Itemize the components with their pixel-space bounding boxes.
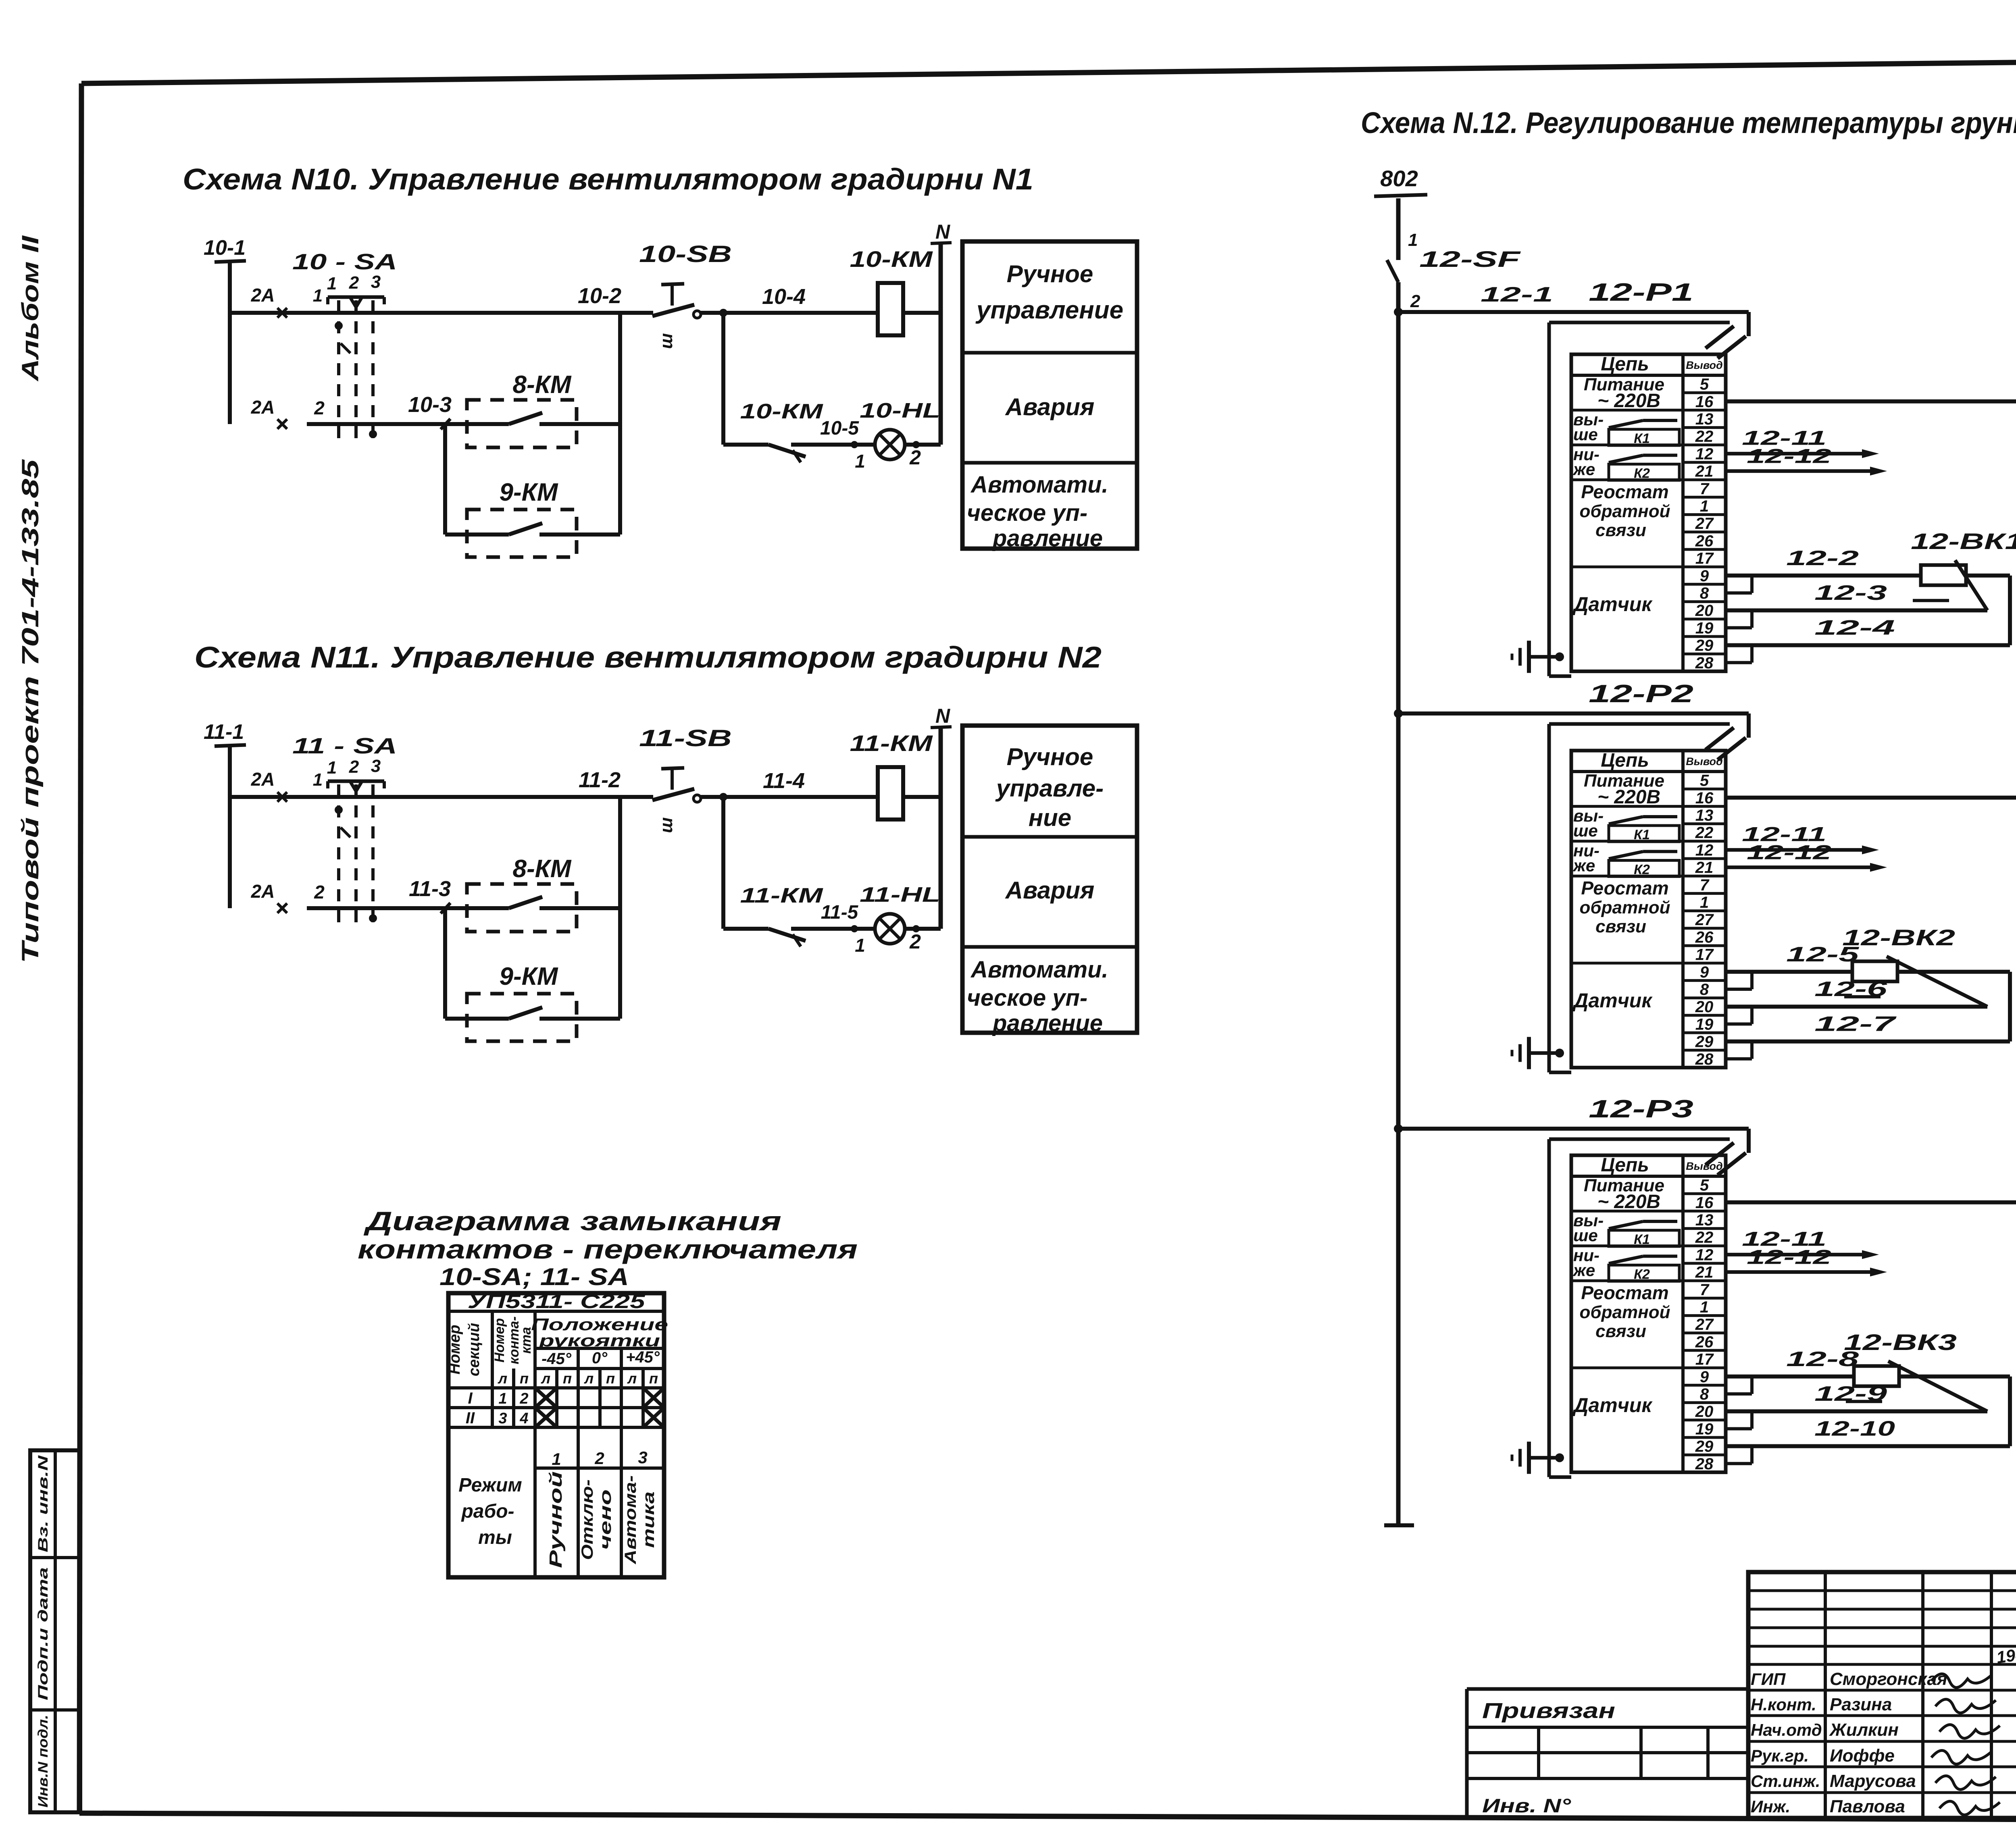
- svg-text:Датчик: Датчик: [1572, 593, 1653, 616]
- sensor pair bracket rows 29-28: [1726, 645, 1752, 663]
- wire 12-12 arrow: [1726, 841, 1887, 872]
- svg-text:ГИП: ГИП: [1751, 1670, 1786, 1689]
- svg-text:контактов - переключателя: контактов - переключателя: [358, 1234, 858, 1264]
- svg-text:12-ВК3: 12-ВК3: [1844, 1329, 1957, 1355]
- strip label выше with contact К1: [1573, 410, 1679, 446]
- label 12-10: [1814, 1417, 1895, 1441]
- svg-text:1: 1: [313, 770, 323, 790]
- svg-text:2А: 2А: [251, 769, 275, 790]
- svg-text:12: 12: [1695, 445, 1714, 463]
- svg-text:20: 20: [1695, 998, 1714, 1016]
- switch 11-SA junction dot pole3: [369, 914, 377, 922]
- svg-text:~ 220В: ~ 220В: [1597, 1191, 1660, 1213]
- svg-text:л: л: [627, 1370, 637, 1387]
- svg-text:10-КМ: 10-КМ: [740, 400, 824, 423]
- svg-text:Вывод: Вывод: [1686, 755, 1722, 768]
- label 2A top: [251, 769, 275, 790]
- sensor pair bracket rows 9-8: [1726, 1377, 1752, 1394]
- N bus: [931, 705, 952, 929]
- wire 12-11 arrow: [1726, 426, 1879, 458]
- svg-text:10-3: 10-3: [408, 393, 452, 417]
- wire rung 10-2 segment: [230, 311, 653, 315]
- contact 9-KM dashed box: [467, 510, 577, 557]
- lamp 11-HL: [860, 883, 940, 944]
- svg-text:ние: ние: [1029, 804, 1071, 831]
- svg-text:17: 17: [1695, 1351, 1714, 1369]
- svg-text:12-1: 12-1: [1481, 283, 1553, 306]
- wire self-hold vertical: [721, 313, 725, 445]
- svg-text:22: 22: [1695, 1229, 1714, 1246]
- svg-text:3: 3: [498, 1410, 507, 1427]
- svg-text:12-Р3: 12-Р3: [1589, 1095, 1693, 1123]
- svg-text:8: 8: [1700, 981, 1709, 998]
- svg-text:9: 9: [1700, 1368, 1709, 1386]
- table режим работы cell: [458, 1475, 522, 1548]
- wire rung 11-2 segment: [230, 795, 653, 799]
- svg-text:26: 26: [1695, 1333, 1714, 1351]
- svg-text:10-5: 10-5: [820, 418, 859, 439]
- switch 11-SA poles dashed: [339, 784, 373, 927]
- pushbutton 10-SB: [652, 284, 701, 349]
- mode box texts: [967, 743, 1108, 1036]
- svg-text:7: 7: [1700, 480, 1710, 498]
- switch 11-SA junction dot pole1: [335, 806, 350, 837]
- sensor pair bracket rows 20-19: [1726, 1411, 1752, 1429]
- svg-text:2А: 2А: [251, 397, 275, 418]
- wire start mark bottom: [277, 903, 287, 913]
- label 2A bottom: [251, 397, 275, 418]
- label 2 lower rung: [314, 882, 325, 903]
- label 12-9: [1814, 1382, 1887, 1406]
- rotated label отключено: [579, 1479, 614, 1560]
- wire branch right vertical: [618, 313, 622, 535]
- привязан block: [1467, 1689, 1748, 1818]
- svg-text:11 - SА: 11 - SА: [292, 733, 397, 758]
- svg-text:управле-: управле-: [995, 775, 1104, 802]
- svg-text:2А: 2А: [251, 881, 275, 902]
- terminal strip 12-Р3: [1571, 1155, 1726, 1472]
- svg-text:п: п: [649, 1370, 658, 1387]
- label 10-5: [820, 418, 859, 439]
- sensor pair bracket rows 20-19: [1726, 1007, 1752, 1024]
- svg-text:Типовой проект 701-4-133.85: Типовой проект 701-4-133.85: [17, 459, 44, 963]
- svg-text:17: 17: [1695, 946, 1714, 964]
- svg-text:26: 26: [1695, 532, 1714, 550]
- rotated header номер контакта: [492, 1317, 534, 1364]
- terminal numbers: [1695, 376, 1714, 672]
- signature row ГИП Сморгонская: [1751, 1669, 1992, 1689]
- svg-text:28: 28: [1695, 1050, 1714, 1068]
- junction tick lower rung: [441, 903, 450, 913]
- svg-text:Схема N11. Управление вентилят: Схема N11. Управление вентилятором гради…: [194, 641, 1102, 674]
- wire 10-4 segment: [700, 311, 878, 315]
- table column lines: [492, 1311, 643, 1577]
- svg-text:же: же: [1572, 856, 1595, 875]
- lamp pin 1: [855, 451, 865, 472]
- svg-text:11-КМ: 11-КМ: [740, 884, 824, 907]
- svg-text:2: 2: [1410, 291, 1420, 311]
- title block year 1984: [1995, 1643, 2016, 1667]
- svg-text:10-SВ: 10-SВ: [639, 241, 732, 267]
- svg-text:N: N: [935, 705, 950, 727]
- svg-text:Ручное: Ручное: [1007, 743, 1093, 770]
- strip label питание 220В: [1584, 1176, 1664, 1213]
- svg-text:-45°: -45°: [541, 1350, 572, 1368]
- svg-text:кта: кта: [519, 1327, 534, 1354]
- diagram heading line 3: [439, 1263, 629, 1290]
- svg-text:секций: секций: [466, 1323, 483, 1377]
- strip label питание 220В: [1584, 771, 1664, 808]
- margin text: album: [17, 235, 44, 382]
- contact 8-KM label: [513, 855, 572, 883]
- svg-text:12-6: 12-6: [1814, 978, 1888, 1001]
- svg-text:Н.конт.: Н.конт.: [1751, 1695, 1816, 1714]
- svg-text:26: 26: [1695, 928, 1714, 946]
- svg-text:2: 2: [314, 397, 325, 418]
- switch 11-SA label: [292, 733, 397, 758]
- wire lamp to N: [905, 443, 941, 447]
- table header УП5311-С225: [448, 1291, 664, 1312]
- lamp pin 1: [855, 935, 865, 956]
- svg-text:ческое уп-: ческое уп-: [967, 500, 1087, 526]
- label 12-7: [1814, 1013, 1897, 1036]
- svg-text:Цепь: Цепь: [1601, 750, 1649, 771]
- svg-text:16: 16: [1695, 789, 1714, 807]
- label 12-3: [1814, 581, 1887, 605]
- wire feed to relay 12-Р3: [1398, 1129, 1749, 1153]
- lamp 10-HL: [860, 399, 940, 460]
- junction self-hold: [719, 309, 727, 317]
- terminal strip 12-Р2: [1571, 751, 1726, 1067]
- svg-text:802: 802: [1380, 166, 1418, 191]
- wire 220V return row16 to N bus: [1726, 793, 2016, 802]
- table positions row 1 2 3: [535, 1448, 664, 1468]
- label 11-4: [763, 769, 805, 793]
- svg-text:К2: К2: [1634, 862, 1650, 877]
- svg-text:27: 27: [1695, 515, 1714, 532]
- junction dot before lamp: [851, 925, 858, 932]
- pushbutton 11-SB: [652, 768, 701, 833]
- signature row Н.конт. Разина: [1751, 1695, 1996, 1714]
- contact 8-KM blade: [467, 897, 620, 908]
- thermal sensor 12-ВК3: [1844, 1329, 1987, 1411]
- svg-text:1: 1: [1408, 230, 1418, 250]
- mode box: [962, 241, 1137, 549]
- svg-text:Разина: Разина: [1830, 1695, 1892, 1714]
- svg-text:1: 1: [855, 451, 865, 472]
- contact 9-KM label: [500, 963, 558, 990]
- lamp pin 2: [909, 446, 921, 469]
- margin stamp label Podp.i data: [35, 1567, 51, 1700]
- terminal strip header texts: [1601, 1154, 1722, 1176]
- svg-text:8-КМ: 8-КМ: [513, 371, 572, 399]
- thermal sensor 12-ВК1: [1911, 528, 2016, 610]
- svg-text:л: л: [584, 1370, 594, 1387]
- label 12-6: [1814, 978, 1888, 1001]
- svg-text:II: II: [466, 1409, 475, 1427]
- svg-text:1: 1: [327, 274, 337, 293]
- wire 12-12 arrow: [1726, 1246, 1887, 1277]
- svg-text:Инж.: Инж.: [1751, 1797, 1790, 1816]
- relay 12-Р1 label: [1589, 279, 1693, 306]
- contact 8-KM label: [513, 371, 572, 399]
- svg-text:Ст.инж.: Ст.инж.: [1751, 1772, 1820, 1791]
- ground symbol 12-Р2: [1512, 1037, 1564, 1069]
- table bottom section separators: [578, 1427, 621, 1577]
- svg-text:12-9: 12-9: [1814, 1382, 1887, 1406]
- svg-text:21: 21: [1695, 463, 1714, 480]
- svg-text:Вз. инв.N: Вз. инв.N: [35, 1455, 51, 1552]
- contact 8-KM dashed box: [467, 400, 577, 447]
- svg-text:2: 2: [909, 930, 921, 953]
- strip label датчик: [1572, 593, 1653, 616]
- rotated label ручной: [546, 1471, 566, 1568]
- svg-text:1: 1: [1700, 894, 1709, 911]
- svg-text:16: 16: [1695, 393, 1714, 411]
- svg-text:13: 13: [1695, 410, 1714, 428]
- wire 12-2: [1726, 547, 1921, 576]
- svg-text:8-КМ: 8-КМ: [513, 855, 572, 883]
- label 10-4: [762, 285, 806, 309]
- svg-text:Подп.и дата: Подп.и дата: [35, 1567, 51, 1700]
- svg-text:12-12: 12-12: [1747, 1246, 1831, 1269]
- coil 10-KM: [850, 246, 933, 335]
- wire start mark top: [277, 792, 287, 802]
- left bus bottom tick: [1384, 1523, 1414, 1527]
- contact 9-KM label: [500, 478, 558, 506]
- sensor pair bracket rows 9-8: [1726, 972, 1752, 989]
- svg-text:ш: ш: [656, 817, 676, 833]
- svg-text:3: 3: [638, 1448, 647, 1467]
- terminal numbers: [1695, 772, 1714, 1068]
- svg-text:11-1: 11-1: [204, 720, 244, 744]
- junction dot feed 1: [1394, 308, 1403, 316]
- junction self-hold: [719, 793, 727, 801]
- svg-text:21: 21: [1695, 859, 1714, 877]
- contact 11-KM NC blade: [723, 929, 876, 946]
- label 11-2: [579, 768, 621, 792]
- wire branch left vertical: [443, 908, 447, 1019]
- relay 12-Р1 outer box: [1549, 322, 1730, 676]
- svg-text:ш: ш: [656, 333, 676, 349]
- strip label реостат обратной связи: [1580, 878, 1670, 936]
- svg-text:1: 1: [552, 1450, 561, 1468]
- svg-text:12-Р1: 12-Р1: [1589, 279, 1693, 306]
- schema 10 title: [183, 162, 1033, 196]
- relay 12-Р3 outer box: [1549, 1139, 1730, 1477]
- cross marks row II: [535, 1408, 664, 1427]
- switch 10-SA label: [292, 249, 397, 274]
- svg-text:обратной: обратной: [1580, 1302, 1670, 1322]
- svg-text:п: п: [606, 1370, 615, 1387]
- svg-text:12-Р2: 12-Р2: [1589, 680, 1693, 708]
- wire start mark bottom: [277, 419, 287, 429]
- svg-text:Инв. N°: Инв. N°: [1482, 1795, 1571, 1817]
- svg-text:22: 22: [1695, 428, 1714, 445]
- svg-text:Рук.гр.: Рук.гр.: [1751, 1746, 1809, 1765]
- margin stamp boxes: [30, 1450, 80, 1812]
- svg-text:19: 19: [1695, 619, 1714, 637]
- switch 10-SA pole numbers 1 2 3: [327, 272, 381, 293]
- strip label питание 220В: [1584, 375, 1664, 412]
- switch 10-SA crossbar: [328, 297, 384, 313]
- coil 11-KM: [850, 730, 933, 820]
- svg-text:12-4: 12-4: [1814, 616, 1895, 640]
- svg-text:Инв.N подл.: Инв.N подл.: [35, 1715, 51, 1807]
- contact 10-KM NC blade: [723, 445, 876, 462]
- svg-text:Жилкин: Жилкин: [1829, 1720, 1899, 1740]
- sensor loop wires: [1726, 1377, 2010, 1446]
- cross marks row I: [535, 1388, 664, 1408]
- svg-text:3: 3: [371, 756, 381, 776]
- svg-text:л: л: [541, 1370, 550, 1387]
- svg-text:11-НL: 11-НL: [860, 883, 940, 907]
- svg-text:Авария: Авария: [1005, 877, 1095, 904]
- switch 11-SA pole numbers 1 2 3: [327, 756, 381, 778]
- label 1 left of SA: [313, 286, 323, 306]
- svg-text:10-НL: 10-НL: [860, 399, 940, 422]
- lamp pin 2: [909, 930, 921, 953]
- svg-text:Датчик: Датчик: [1572, 1394, 1653, 1416]
- wire 12-1 label: [1481, 283, 1553, 306]
- terminal strip header texts: [1601, 354, 1722, 375]
- svg-text:0°: 0°: [592, 1349, 608, 1367]
- svg-text:Схема N10. Управление вентилят: Схема N10. Управление вентилятором гради…: [183, 162, 1033, 196]
- svg-text:12-3: 12-3: [1814, 581, 1887, 605]
- wire lamp to N: [905, 927, 941, 931]
- svg-text:10-КМ: 10-КМ: [850, 246, 933, 272]
- svg-text:К2: К2: [1634, 466, 1650, 481]
- svg-text:11-4: 11-4: [763, 769, 805, 793]
- supply node 802: [1374, 166, 1427, 196]
- svg-text:УП5311- С225: УП5311- С225: [468, 1291, 646, 1312]
- svg-text:же: же: [1572, 1261, 1595, 1280]
- svg-text:12-12: 12-12: [1747, 445, 1831, 468]
- svg-text:10-4: 10-4: [762, 285, 806, 309]
- svg-text:К2: К2: [1634, 1267, 1650, 1282]
- svg-text:тика: тика: [640, 1491, 658, 1548]
- svg-text:29: 29: [1695, 637, 1714, 655]
- svg-text:1: 1: [1700, 1298, 1709, 1316]
- svg-text:12-10: 12-10: [1814, 1417, 1895, 1441]
- switch 10-SA junction dot pole3: [369, 430, 377, 438]
- signature row Ст.инж. Марусова: [1751, 1771, 1996, 1791]
- thermal sensor 12-ВК2: [1842, 925, 1987, 1007]
- svg-text:Схема N.12. Регулирование те: Схема N.12. Регулирование температуры гр…: [1361, 106, 2016, 139]
- svg-text:управление: управление: [975, 296, 1123, 324]
- ground symbol 12-Р1: [1512, 641, 1564, 673]
- svg-text:Вывод: Вывод: [1686, 1160, 1722, 1172]
- svg-text:12-ВК1: 12-ВК1: [1911, 528, 2016, 554]
- label 2 lower rung: [314, 397, 325, 418]
- sensor pair bracket rows 20-19: [1726, 610, 1752, 628]
- svg-text:2: 2: [349, 757, 359, 777]
- margin stamp label Vz.inv.N: [35, 1455, 51, 1552]
- svg-text:16: 16: [1695, 1194, 1714, 1212]
- svg-text:+45°: +45°: [626, 1348, 660, 1366]
- svg-text:2: 2: [349, 273, 359, 293]
- svg-text:ше: ше: [1573, 1226, 1598, 1245]
- svg-text:I: I: [468, 1389, 473, 1407]
- svg-text:1: 1: [313, 286, 323, 306]
- wire lower rung 10-3: [307, 393, 467, 424]
- wire 12-11 arrow: [1726, 1227, 1879, 1259]
- contact 8-KM dashed box: [467, 884, 577, 932]
- svg-text:12: 12: [1695, 841, 1714, 859]
- table УП5311-С225 outer box: [448, 1293, 664, 1577]
- svg-text:п: п: [563, 1370, 572, 1387]
- switch 11-SA crossbar: [328, 781, 384, 797]
- svg-text:Автома-: Автома-: [622, 1475, 639, 1564]
- svg-text:12-12: 12-12: [1747, 841, 1831, 864]
- svg-text:5: 5: [1700, 772, 1709, 790]
- label 2A bottom: [251, 881, 275, 902]
- rotated header номер секций: [446, 1323, 483, 1377]
- wire 12-8: [1726, 1348, 1859, 1377]
- svg-text:12-2: 12-2: [1786, 547, 1859, 570]
- sensor loop wires: [1726, 972, 2010, 1042]
- svg-text:12-SF: 12-SF: [1419, 246, 1521, 272]
- svg-text:1: 1: [498, 1390, 507, 1407]
- svg-text:Цепь: Цепь: [1601, 1154, 1649, 1176]
- svg-text:27: 27: [1695, 911, 1714, 929]
- relay 12-Р3 label: [1589, 1095, 1693, 1123]
- mode box texts: [967, 260, 1123, 551]
- svg-text:5: 5: [1700, 1177, 1709, 1194]
- svg-text:28: 28: [1695, 1455, 1714, 1473]
- svg-text:12-ВК2: 12-ВК2: [1842, 925, 1955, 950]
- strip label реостат обратной связи: [1580, 481, 1670, 540]
- svg-text:20: 20: [1695, 602, 1714, 620]
- left supply bus: [1396, 282, 1401, 1525]
- table row л п: [492, 1370, 664, 1388]
- svg-text:Авария: Авария: [1005, 393, 1095, 420]
- sensor pair bracket rows 29-28: [1726, 1446, 1752, 1464]
- terminal strip 12-Р1: [1571, 354, 1726, 671]
- svg-text:Реостат: Реостат: [1581, 878, 1668, 899]
- svg-text:11-5: 11-5: [821, 902, 859, 923]
- wire lower rung 11-3: [307, 877, 467, 908]
- wire 220V return row16 to N bus: [1726, 1198, 2016, 1207]
- N bus: [931, 220, 952, 445]
- svg-text:19: 19: [1695, 1420, 1714, 1438]
- svg-text:Режим: Режим: [458, 1475, 522, 1496]
- sensor pair bracket rows 9-8: [1726, 576, 1752, 593]
- connector chevron into strip: [1706, 1143, 1746, 1175]
- svg-text:8: 8: [1700, 1385, 1709, 1403]
- pushbutton 11-SB label: [639, 725, 732, 751]
- relay 12-Р2 label: [1589, 680, 1693, 708]
- connector chevron into strip: [1706, 728, 1746, 760]
- svg-text:N: N: [935, 220, 950, 243]
- svg-text:обратной: обратной: [1580, 898, 1670, 917]
- svg-text:связи: связи: [1595, 520, 1646, 540]
- svg-text:27: 27: [1695, 1316, 1714, 1333]
- strip label выше with contact К1: [1573, 806, 1679, 842]
- node 11-1 feeder: [204, 720, 246, 908]
- pushbutton 10-SB label: [639, 241, 732, 267]
- wire start mark top: [277, 308, 287, 318]
- breaker 12-SF: [1387, 198, 1521, 311]
- svg-text:10-1: 10-1: [204, 236, 246, 260]
- svg-text:Сморгонская: Сморгонская: [1830, 1669, 1947, 1689]
- contact 9-KM blade: [445, 523, 620, 535]
- svg-text:Нач.отд: Нач.отд: [1751, 1720, 1822, 1739]
- junction dot after lamp: [912, 441, 920, 448]
- table header положение рукоятки: [531, 1315, 668, 1350]
- label 2A top: [251, 285, 275, 306]
- svg-text:Датчик: Датчик: [1572, 989, 1653, 1012]
